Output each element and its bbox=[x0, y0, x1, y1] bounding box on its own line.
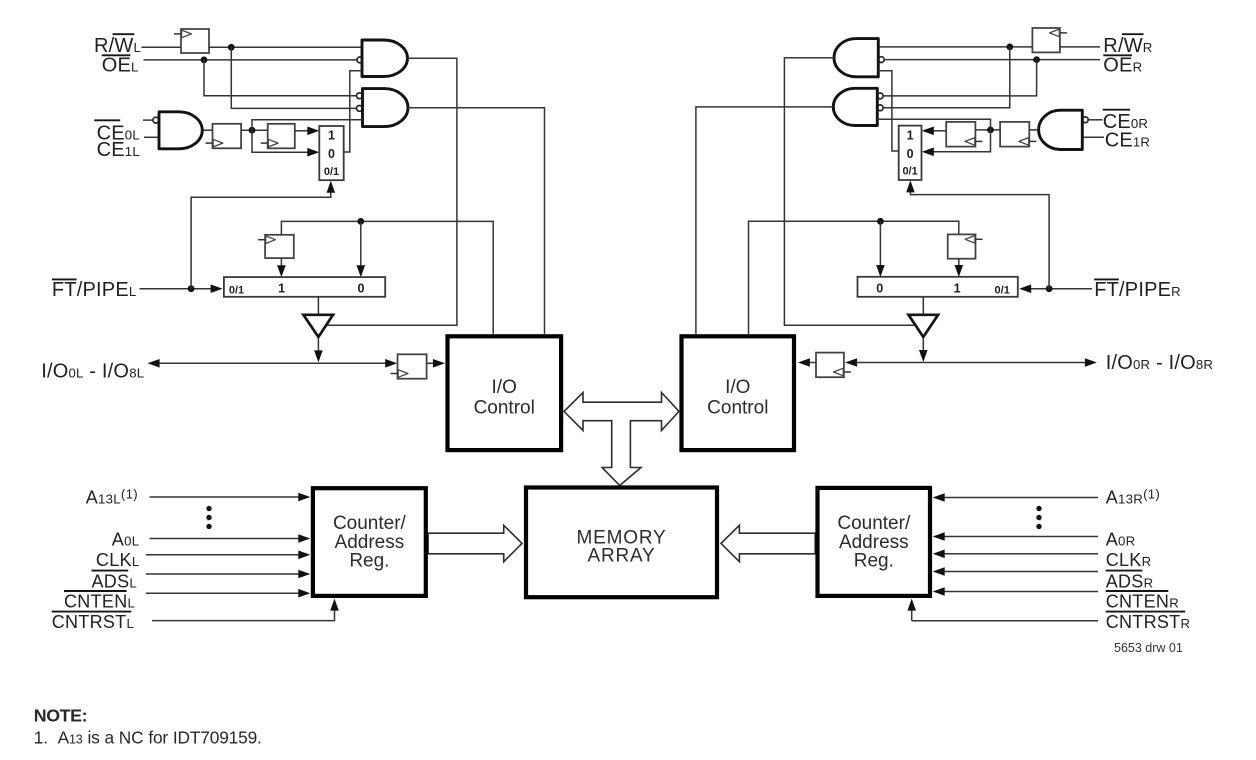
wire FT/PIPE_R to select register bbox=[1031, 288, 1092, 290]
wire OE_L to AND gate G1L inverted input bbox=[144, 59, 357, 61]
wire I/O bus right segment bbox=[845, 358, 857, 367]
flip-flop FF2L (CE pipeline stage 2) bbox=[268, 124, 295, 149]
wire FF4R output to I/O Control (right) bbox=[810, 362, 816, 364]
wire buffer B1L output to I/O bus bbox=[317, 338, 319, 351]
svg-text:A13L(1): A13L(1) bbox=[86, 487, 138, 508]
fat arrow Counter/Address Reg left to Memory Array bbox=[428, 525, 522, 561]
select register box SR-R (0 | 1 | 0/1) bbox=[858, 277, 1018, 297]
ellipsis dots left address bus bbox=[206, 506, 211, 511]
svg-text:0/1: 0/1 bbox=[995, 284, 1010, 296]
svg-text:OER: OER bbox=[1103, 54, 1142, 76]
wire CNTRST_L up into counter bottom bbox=[152, 610, 335, 620]
wire I/O bus left segment with arrowhead bbox=[148, 359, 160, 368]
svg-text:0: 0 bbox=[876, 281, 883, 295]
wire FF1L node up to G2L input C bbox=[252, 120, 363, 130]
inversion bubble G1L input B bbox=[357, 57, 363, 63]
junction node on recall line right bbox=[877, 218, 884, 225]
flip-flop (R/W_L input register) with clock wedge bbox=[181, 29, 209, 53]
tri-state output buffer B1R bbox=[909, 315, 939, 337]
wire FT/PIPE_L up to mux M1L select bbox=[191, 193, 331, 289]
svg-text:ADSL: ADSL bbox=[92, 572, 138, 592]
svg-text:0/1: 0/1 bbox=[229, 284, 244, 296]
svg-text:CNTENR: CNTENR bbox=[1106, 592, 1179, 612]
wire R/W_L to flip-flop bbox=[142, 46, 182, 48]
svg-text:I/O: I/O bbox=[492, 377, 517, 398]
svg-text:ARRAY: ARRAY bbox=[587, 545, 655, 566]
svg-text:CNTRSTL: CNTRSTL bbox=[52, 612, 134, 632]
AND gate G2L (output enable) bbox=[363, 89, 409, 127]
wire CE1_R to gate G3R input B bbox=[1082, 136, 1104, 138]
wire CNTEN_R to counter bbox=[944, 591, 1098, 593]
wire CNTEN_L to counter bbox=[146, 592, 299, 594]
block Counter/Address Reg. (left) bbox=[313, 488, 426, 596]
flip-flop FF3L (pipeline read register) bbox=[265, 235, 294, 258]
svg-text:CNTENL: CNTENL bbox=[64, 592, 135, 612]
wire ADS_R to counter bbox=[944, 571, 1098, 573]
wire G3R output to flip-flop FF1R bbox=[1029, 129, 1038, 131]
svg-text:1: 1 bbox=[954, 281, 961, 295]
wire node down to SR-R input 0 bbox=[879, 221, 881, 265]
wire OE_L drop to AND gate G2L inverted input A bbox=[204, 60, 356, 96]
wire recall from I/O Control to FF3L and SR-L bbox=[281, 221, 493, 334]
wire R/W_R to flip-flop bbox=[1060, 46, 1100, 48]
wire SR-L output to tri-state buffer B1L bbox=[317, 297, 319, 315]
svg-text:Reg.: Reg. bbox=[349, 550, 389, 571]
wire G2R output to I/O Control top bbox=[696, 107, 833, 334]
wire CNTRST_R up into counter bottom bbox=[912, 610, 1098, 621]
junction node after FF1R bbox=[987, 126, 994, 133]
svg-text:0/1: 0/1 bbox=[902, 166, 917, 178]
wire FF3L output down to SR-L input 1 bbox=[280, 258, 282, 266]
flip-flop (R/W_R input register) bbox=[1032, 28, 1060, 52]
inversion bubble G3L input A bbox=[153, 117, 159, 123]
svg-text:1: 1 bbox=[328, 129, 335, 143]
svg-text:A13R(1): A13R(1) bbox=[1106, 487, 1160, 508]
svg-text:I/O: I/O bbox=[725, 377, 750, 398]
svg-text:FT/PIPER: FT/PIPER bbox=[1094, 279, 1181, 301]
svg-text:CNTRSTR: CNTRSTR bbox=[1106, 612, 1191, 632]
wire buffer B1R output to I/O bus bbox=[922, 338, 924, 350]
wire R/W_L flip-flop output to AND gate G1L top input bbox=[209, 46, 362, 48]
wire A13L to counter bbox=[150, 496, 299, 498]
wire CE0_L to NAND gate G3L inverted input bbox=[143, 119, 153, 121]
wire FT/PIPE_R up to mux M1R select bbox=[910, 192, 1049, 289]
wire CE1_L to gate G3L input B bbox=[144, 136, 159, 138]
wire SR-R output to tri-state buffer B1R bbox=[922, 297, 924, 315]
junction node on OE_L line bbox=[201, 57, 208, 64]
svg-text:A0L: A0L bbox=[112, 530, 140, 550]
inversion bubble G2L input A bbox=[357, 93, 363, 99]
svg-text:1: 1 bbox=[278, 281, 285, 295]
svg-text:I/O0R - I/O8R: I/O0R - I/O8R bbox=[1106, 352, 1213, 374]
svg-text:FT/PIPEL: FT/PIPEL bbox=[52, 279, 137, 301]
junction node on R/W_L line bbox=[228, 44, 235, 51]
wire FF1L node down to mux M1L input 0 bbox=[252, 130, 308, 152]
flip-flop FF2R (CE pipeline stage 2) bbox=[946, 122, 975, 147]
junction node on recall line bbox=[357, 218, 364, 225]
wire recall from I/O Control to FF3R and SR-R bbox=[749, 221, 959, 334]
flip-flop FF1L (CE pipeline stage 1) bbox=[213, 124, 242, 149]
svg-text:Control: Control bbox=[474, 398, 535, 419]
AND gate G1R (read enable) bbox=[834, 39, 878, 77]
junction node on R/W_R line bbox=[1006, 44, 1013, 51]
inversion bubble G2L input B bbox=[357, 106, 363, 112]
select register box SR-L (0/1 | 1 | 0) bbox=[224, 277, 385, 297]
svg-text:Control: Control bbox=[707, 398, 768, 419]
AND gate G1L (read enable) bbox=[362, 40, 407, 77]
block I/O Control (right) bbox=[682, 336, 795, 450]
block I/O Control (left) bbox=[448, 336, 562, 450]
junction node after FF1L bbox=[249, 127, 256, 134]
svg-text:0: 0 bbox=[907, 147, 914, 161]
inversion bubble G1R input B bbox=[878, 57, 884, 63]
wire CLK_L to counter bbox=[146, 554, 299, 556]
flip-flop FF4R (input data register) bbox=[816, 353, 844, 378]
block MEMORY ARRAY bbox=[526, 488, 717, 598]
ellipsis dots right address bus bbox=[1036, 506, 1041, 511]
wire FF1R output to FF2R bbox=[975, 129, 1000, 131]
wire mux M1L output up to G1L input C bbox=[344, 71, 362, 152]
svg-text:Reg.: Reg. bbox=[854, 550, 894, 571]
wire FF2L output to mux M1L input 1 bbox=[295, 130, 308, 132]
wire FF1R node up to G2R input C bbox=[877, 119, 990, 130]
wire G3L output to flip-flop FF1L bbox=[202, 129, 212, 131]
wire G1L output to output buffer enable bbox=[327, 58, 457, 325]
svg-text:1. A13 is a NC for IDT709159.: 1. A13 is a NC for IDT709159. bbox=[34, 728, 262, 748]
AND gate G3R (chip-enable decode) bbox=[1039, 110, 1083, 149]
inversion bubble G3R input A bbox=[1082, 117, 1088, 123]
svg-text:CLKL: CLKL bbox=[96, 550, 140, 570]
wire G1R output to output buffer enable bbox=[784, 58, 917, 326]
flip-flop FF1R (CE pipeline stage 1) bbox=[1000, 122, 1029, 147]
wire OE_R drop to AND gate G2R inverted input A bbox=[884, 60, 1037, 96]
svg-text:0: 0 bbox=[358, 281, 365, 295]
wire FF2R output to mux M1R input 1 bbox=[934, 130, 947, 132]
svg-text:ADSR: ADSR bbox=[1106, 572, 1154, 592]
wire A0R to counter bbox=[944, 536, 1098, 538]
wire R/W_R drop to AND gate G2R inverted input bbox=[884, 47, 1010, 108]
wire A0L to counter bbox=[150, 538, 299, 540]
flip-flop FF3R (pipeline read register) bbox=[948, 234, 976, 258]
junction node on OE_R line bbox=[1033, 56, 1040, 63]
wire mux M1R output up to G1R input C bbox=[878, 71, 898, 151]
wire A13R to counter bbox=[944, 497, 1098, 499]
svg-text:CE1R: CE1R bbox=[1105, 129, 1150, 151]
inversion bubble G2R input A bbox=[877, 93, 883, 99]
svg-text:I/O0L - I/O8L: I/O0L - I/O8L bbox=[41, 361, 144, 383]
svg-text:5653 drw 01: 5653 drw 01 bbox=[1114, 641, 1183, 655]
svg-text:0/1: 0/1 bbox=[324, 166, 339, 178]
block Counter/Address Reg. (right) bbox=[818, 488, 931, 596]
wire ADS_L to counter bbox=[146, 573, 299, 575]
wire OE_R to AND gate G1R inverted input bbox=[885, 59, 1101, 61]
wire CLK_R to counter bbox=[944, 553, 1098, 555]
mux M1R (1 / 0 / 0-1 select) bbox=[899, 126, 922, 180]
svg-text:A0R: A0R bbox=[1106, 530, 1136, 550]
svg-text:1: 1 bbox=[907, 128, 914, 142]
wire FF4L output to I/O Control bbox=[427, 362, 433, 364]
svg-text:0: 0 bbox=[328, 147, 335, 161]
junction node on FT/PIPE_R bbox=[1046, 285, 1053, 292]
svg-text:CLKR: CLKR bbox=[1106, 550, 1152, 570]
junction node on FT/PIPE_L bbox=[188, 285, 195, 292]
AND gate G3L (chip-enable decode) bbox=[159, 112, 202, 149]
wire FF3R output down to SR-R input 1 bbox=[958, 259, 960, 266]
svg-text:NOTE:: NOTE: bbox=[34, 706, 87, 726]
wire G2L output to I/O Control top bbox=[408, 108, 545, 334]
fat arrow Counter/Address Reg right to Memory Array bbox=[721, 525, 815, 561]
wire CE0_R to gate G3R inverted input bbox=[1089, 119, 1103, 121]
wire FF1L output to FF2L bbox=[241, 129, 268, 131]
wire R/W_L drop to AND gate G2L inverted input bbox=[231, 47, 356, 108]
wire R/W_R flip-flop to AND gate G1R top input bbox=[878, 46, 1032, 48]
inversion bubble G2R input B bbox=[877, 105, 883, 111]
wire FF1R node down to mux M1R input 0 bbox=[934, 130, 991, 152]
AND gate G2R (output enable) bbox=[833, 88, 877, 125]
fat bidirectional arrow I/O Control to Memory Array (T shape) bbox=[564, 393, 679, 486]
flip-flop FF4L (input data register) bbox=[398, 354, 427, 378]
wire node down to SR-L input 0 bbox=[360, 221, 362, 265]
tri-state output buffer B1L bbox=[303, 315, 333, 337]
wire FT/PIPE_L to select register bbox=[140, 288, 211, 290]
svg-text:OEL: OEL bbox=[102, 54, 139, 76]
mux M1L (1 / 0 / 0-1 select) bbox=[319, 126, 343, 180]
